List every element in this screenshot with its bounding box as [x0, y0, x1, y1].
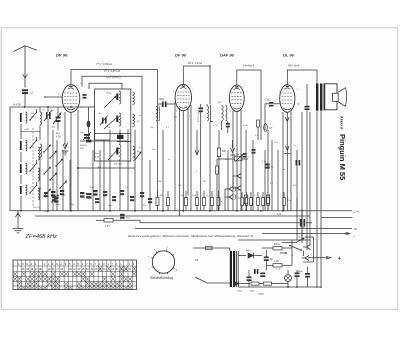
wire DL96 anode top [287, 70, 317, 85]
IF1 primary coil [119, 91, 121, 104]
power switch fork lower [302, 256, 310, 261]
switch S2 contact [30, 141, 36, 148]
IF transformer Fi2 primary [207, 106, 209, 121]
svg-text:4000Ω: 4000Ω [80, 145, 87, 147]
wire left-mid verticals [52, 130, 54, 211]
inductor L6 [40, 144, 42, 157]
jack fork upper [233, 174, 241, 179]
wire DF96 anode top [183, 66, 210, 104]
wire tap 1,5v [321, 217, 353, 219]
wire h mid left [80, 140, 128, 142]
svg-text:RB 5+: RB 5+ [246, 250, 253, 252]
svg-text:U4Mμ: U4Mμ [258, 294, 265, 296]
svg-text:1M: 1M [236, 154, 239, 156]
ground DAF96 grid [232, 140, 234, 148]
IF transformer Fi1 shield box [95, 89, 131, 161]
capacitor C-det [226, 123, 230, 125]
svg-text:U4Mμ: U4Mμ [297, 271, 303, 273]
svg-text:a-2B: a-2B [24, 129, 29, 131]
bus 1 (A+ 1,4V) [10, 210, 352, 212]
switch S4 contact [30, 186, 36, 193]
inductor L3 ferrite [20, 164, 22, 173]
svg-text:ZF=468 kHz: ZF=468 kHz [24, 234, 57, 240]
wire secondary top [238, 255, 246, 257]
svg-text:Pinguin M 55: Pinguin M 55 [338, 134, 347, 180]
second coil column [38, 147, 40, 160]
capacitor C-if2 [199, 108, 204, 110]
svg-text:4μF: 4μF [269, 128, 273, 130]
speaker LS cone [338, 88, 346, 107]
svg-text:Seilaufführung: Seilaufführung [150, 276, 173, 280]
jack D [225, 187, 233, 192]
inductor L2 ferrite [20, 141, 22, 150]
svg-text:HF: HF [195, 258, 199, 262]
svg-text:+: + [353, 235, 355, 239]
capacitor U4Mu [305, 273, 310, 275]
wire IF box junction rows [95, 133, 132, 135]
wire DK96 grid left [45, 96, 62, 98]
svg-text:600Ω: 600Ω [274, 244, 280, 246]
IF1 primary coil right [133, 92, 135, 105]
svg-text:DAF 96: DAF 96 [220, 53, 235, 58]
speaker LS magnet [333, 93, 339, 101]
svg-text:77 V, 0,04mA: 77 V, 0,04mA [96, 62, 112, 66]
ground main [17, 211, 19, 222]
wire power bottom bus [238, 286, 322, 288]
tube DAF96 (U3) [229, 85, 244, 111]
bus 5 arrow [262, 233, 348, 235]
wire DAF96 pins [232, 111, 234, 211]
jack C [225, 195, 233, 200]
wire osc box drops [119, 130, 121, 145]
capacitor C-af 5n [265, 164, 269, 166]
output transformer T-out winding 2 [320, 84, 322, 111]
IF transformer Fi2 secondary [222, 106, 224, 122]
switch position table [13, 260, 137, 290]
capacitor coupling af [243, 153, 247, 155]
inductor L5 [40, 112, 42, 125]
capacitor C8 beside DK96 [83, 94, 87, 96]
svg-text:(4k): (4k) [250, 291, 254, 293]
svg-text:+: + [338, 256, 341, 262]
svg-text:1,4v: 1,4v [354, 210, 360, 214]
svg-text:U41μ: U41μ [237, 291, 243, 293]
wire anode rail 2 [82, 76, 142, 155]
IF1 secondary coil [119, 113, 121, 126]
wire mid verticals [141, 155, 143, 211]
wire Fi2 link [209, 122, 211, 211]
battery plus arrow [308, 257, 328, 259]
svg-text:4,5k: 4,5k [56, 136, 61, 139]
wire DF96 pins [174, 102, 176, 211]
svg-text:ε: ε [221, 201, 222, 203]
svg-text:64 V, 2,4mA: 64 V, 2,4mA [188, 61, 202, 65]
band switch arrow cluster [44, 145, 51, 152]
bus 2 [35, 215, 310, 217]
capacitor small 252 [252, 149, 256, 151]
capacitor 100u [260, 273, 265, 275]
resistor row left [156, 198, 159, 206]
svg-text:50K: 50K [225, 159, 229, 161]
wire left vertical main [9, 107, 11, 211]
pilot lamp La [285, 275, 292, 282]
inductor L1 ferrite [20, 113, 22, 122]
wire left col vertical [20, 124, 22, 139]
svg-text:R/C 0,4mA: R/C 0,4mA [197, 112, 200, 123]
svg-text:AM: AM [98, 166, 101, 169]
tube DL96 (U4) [280, 85, 295, 113]
svg-text:+: + [65, 150, 67, 154]
capacitor trimmer C4 [46, 112, 48, 119]
capacitor on speaker line [305, 106, 310, 108]
resistor bottom 1 [251, 282, 259, 285]
resistor R-det 50K [218, 130, 220, 148]
variable capacitor C-tune 1 [56, 117, 61, 119]
wire DK96 pin drop 2 [77, 110, 79, 211]
svg-text:1,2K: 1,2K [274, 261, 279, 263]
svg-text:DL 96: DL 96 [283, 53, 295, 58]
jack fork lower [233, 186, 241, 191]
svg-text:Spannungsangaben: Röhrenvoltme: Spannungsangaben: Röhrenvoltmeter, Meßwe… [128, 234, 254, 238]
capacitor oval 4u [264, 124, 268, 132]
wire speaker leads [316, 111, 318, 289]
svg-text:0,1μ: 0,1μ [265, 100, 270, 102]
bus 4 (9V) [135, 228, 352, 230]
capacitor cluster bottom-left [44, 192, 48, 194]
svg-text:90V, 9mA: 90V, 9mA [288, 64, 299, 68]
wave trap coil [156, 107, 158, 121]
svg-text:0,5M: 0,5M [243, 125, 248, 127]
svg-text:C: C [238, 197, 240, 200]
power transformer Tr core [230, 251, 232, 287]
ground below DF96 [195, 150, 199, 155]
volume pot P1 [217, 158, 235, 160]
resistor 1,2k [273, 264, 282, 267]
output transformer T-out winding 1 [316, 84, 318, 111]
ground below DL96 [285, 117, 289, 122]
junction dots buses [20, 210, 22, 212]
capacitor C-tone [296, 160, 298, 166]
wire DAF region verticals [260, 110, 262, 140]
fuse on mains lead [206, 246, 213, 249]
resistor R-g2 b [267, 130, 269, 193]
svg-text:D: D [238, 189, 240, 192]
svg-text:1,15: 1,15 [105, 226, 110, 228]
capacitor 50u on bus [300, 219, 302, 227]
wire switch gang dashed [32, 128, 34, 207]
power switch S-net contact a2 [290, 246, 300, 250]
svg-text:500 422: 500 422 [114, 164, 123, 166]
speaker LS frame [325, 84, 337, 110]
wire anode rail 1 [71, 70, 158, 104]
wire anode rail 3 [89, 83, 122, 89]
wire switch feed [296, 198, 298, 240]
svg-text:50μ 15v: 50μ 15v [33, 207, 41, 209]
wire DK96 cathode drop [70, 112, 72, 211]
switch S1 contact [30, 113, 36, 120]
wire pot drop [252, 140, 254, 211]
capacitor C7 oval [87, 120, 91, 127]
svg-text:50K: 50K [222, 151, 227, 153]
ground DL96 cathode [286, 146, 290, 151]
capacitor 5+ fork [247, 277, 252, 279]
wire AVC line [78, 167, 135, 169]
wire DL96 pins [282, 112, 284, 211]
capacitor C-grid DL [269, 102, 274, 104]
resistor R-af 1M [245, 130, 247, 193]
svg-text:47m: 47m [287, 200, 291, 202]
wire DAF96 anode top [237, 70, 261, 110]
resistor bottom 2 [264, 282, 272, 285]
svg-text:DF 96: DF 96 [175, 53, 187, 58]
antenna [14, 46, 38, 52]
ground below DK96 [64, 112, 66, 144]
power switch fork upper [303, 245, 311, 250]
ground mid plus [65, 143, 68, 147]
wire right verticals [301, 112, 303, 240]
wire mains left [193, 247, 230, 249]
resistor 0,5M box [257, 120, 260, 127]
svg-text:2M: 2M [160, 195, 163, 197]
svg-text:1M: 1M [203, 181, 206, 183]
svg-text:M 4,5B: M 4,5B [13, 104, 21, 107]
wire left top junction row [10, 106, 95, 108]
capacitor trimmer C10 [84, 134, 90, 136]
svg-text:1mV (15mV): 1mV (15mV) [106, 75, 121, 79]
svg-text:0,1μ: 0,1μ [90, 187, 95, 189]
bus 3 [140, 222, 300, 224]
svg-text:Uf: Uf [174, 116, 177, 119]
resistor 1,15 below bus [96, 219, 104, 221]
capacitor 4,9u [295, 273, 300, 275]
dial drum circle [152, 251, 174, 273]
capacitor 0,1 power [254, 269, 256, 274]
capacitor 22-1 [120, 214, 125, 216]
tube DF96 (U2) [175, 84, 191, 110]
output transformer core [323, 84, 325, 111]
capacitor blobs left bottom [51, 191, 56, 193]
resistor row right [241, 198, 244, 206]
svg-text:Akkord: Akkord [340, 116, 344, 130]
capacitor trimmer C9 [102, 118, 104, 124]
resistor below 50K [216, 166, 219, 174]
resistor 600 [273, 247, 282, 250]
oscillator coil pair L-osc1 [119, 145, 121, 161]
svg-text:DK 96: DK 96 [56, 53, 68, 58]
svg-text:4,5v: 4,5v [277, 213, 282, 216]
switch S3 contact [30, 164, 36, 171]
inductor L4 ferrite [20, 186, 22, 194]
svg-text:2% 64g A: 2% 64g A [242, 64, 254, 68]
oscillator coil right [133, 146, 135, 161]
wire power top bus [238, 239, 310, 241]
capacitor 200p [162, 102, 164, 108]
capacitor 50u f [264, 257, 269, 259]
svg-text:N°4μ: N°4μ [107, 93, 113, 95]
diode D1 [248, 253, 254, 258]
diode D2 bottom [234, 281, 239, 286]
capacitor C-ant 1,2p [22, 89, 28, 91]
svg-text:200p: 200p [159, 98, 165, 101]
tube DK96 (U1) [62, 85, 80, 113]
svg-text:100p: 100p [55, 204, 61, 206]
IF1 secondary coil right [133, 114, 135, 127]
